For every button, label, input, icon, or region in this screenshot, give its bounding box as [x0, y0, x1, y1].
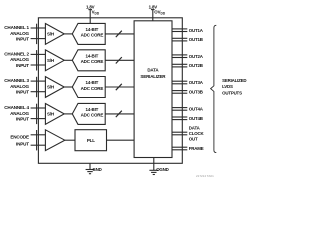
- channel 3 input tick: [36, 77, 38, 97]
- svg-text:ADC CORE: ADC CORE: [81, 113, 104, 118]
- svg-text:PLL: PLL: [87, 138, 95, 143]
- svg-text:14-BIT: 14-BIT: [86, 27, 99, 32]
- svg-text:INPUT: INPUT: [16, 63, 29, 68]
- adc core 2 14-bit: [72, 50, 105, 71]
- ground GND: [86, 163, 102, 173]
- svg-text:SERIALIZER: SERIALIZER: [140, 74, 166, 79]
- svg-text:S/H: S/H: [47, 112, 54, 117]
- svg-text:ADC CORE: ADC CORE: [81, 59, 104, 64]
- bus wire adc 3 to serializer: [105, 84, 134, 90]
- svg-text:INPUT: INPUT: [16, 90, 29, 95]
- svg-text:OUT1A: OUT1A: [189, 28, 204, 33]
- svg-text:OUT3B: OUT3B: [189, 90, 203, 95]
- encode buffer amp: [45, 130, 64, 151]
- lvds output pair OUT2B wires: [172, 64, 187, 67]
- channel 1 input label: [4, 25, 29, 42]
- wire s/h 3 to adc core 3: [64, 86, 72, 88]
- encode input label: [10, 135, 29, 147]
- adc core 3 14-bit: [72, 77, 105, 98]
- svg-text:LVDS: LVDS: [222, 84, 233, 89]
- power net OVDD 1.8V: [149, 5, 166, 21]
- svg-text:INPUT: INPUT: [16, 117, 29, 122]
- bus wire adc 2 to serializer: [105, 57, 134, 63]
- lvds output pair OUT1A wires: [172, 29, 187, 32]
- svg-text:CHANNEL 4: CHANNEL 4: [4, 105, 29, 110]
- svg-text:OUT2A: OUT2A: [189, 54, 204, 59]
- svg-text:S/H: S/H: [47, 58, 54, 63]
- lvds output pair OUT1B wires: [172, 38, 187, 41]
- s/h amp channel 1: [45, 24, 64, 45]
- s/h amp channel 3: [45, 77, 64, 98]
- s/h amp channel 2: [45, 50, 64, 71]
- channel 2 input label: [4, 51, 29, 68]
- svg-text:OUT1B: OUT1B: [189, 37, 203, 42]
- svg-text:S/H: S/H: [47, 32, 54, 37]
- svg-text:14-BIT: 14-BIT: [86, 80, 99, 85]
- s/h amp channel 4: [45, 104, 64, 125]
- svg-text:ANALOG: ANALOG: [10, 84, 29, 89]
- brace grouping lvds outputs: [211, 25, 217, 152]
- svg-text:14-BIT: 14-BIT: [86, 53, 99, 58]
- svg-text:CHANNEL 1: CHANNEL 1: [4, 25, 29, 30]
- wire s/h 4 to adc core 4: [64, 113, 72, 115]
- wire s/h 2 to adc core 2: [64, 59, 72, 61]
- svg-text:DATA: DATA: [147, 68, 159, 73]
- chip outline box: [38, 18, 182, 164]
- svg-text:217214 TA01: 217214 TA01: [196, 174, 214, 178]
- channel 4 input wires: [31, 108, 46, 119]
- lvds output pair OUT4A wires: [172, 108, 187, 111]
- wire s/h 1 to adc core 1: [64, 33, 72, 35]
- svg-text:ANALOG: ANALOG: [10, 31, 29, 36]
- svg-text:ENCODE: ENCODE: [10, 135, 29, 140]
- svg-text:DATA: DATA: [189, 125, 201, 130]
- svg-text:14-BIT: 14-BIT: [86, 107, 99, 112]
- adc core 1 14-bit: [72, 23, 105, 44]
- power net VDD 1.8V: [86, 5, 100, 24]
- channel 1 input tick: [36, 24, 38, 44]
- wire encode amp to pll: [65, 139, 75, 141]
- encode input wires: [31, 135, 46, 145]
- svg-text:OUT3A: OUT3A: [189, 80, 204, 85]
- encode input tick: [36, 130, 38, 150]
- channel 4 input tick: [36, 104, 38, 124]
- svg-text:CHANNEL 2: CHANNEL 2: [4, 51, 29, 56]
- lvds output pair OUT4B wires: [172, 117, 187, 120]
- channel 1 input wires: [31, 28, 46, 39]
- svg-text:FRAME: FRAME: [189, 146, 204, 151]
- svg-text:OUT: OUT: [189, 136, 198, 141]
- svg-text:OUT2B: OUT2B: [189, 63, 203, 68]
- ground OGND: [149, 158, 168, 175]
- wire pll to serializer: [107, 139, 135, 141]
- bus wire adc 4 to serializer: [105, 111, 134, 117]
- svg-text:INPUT: INPUT: [16, 37, 29, 42]
- pll block: [75, 130, 107, 151]
- svg-text:CHANNEL 3: CHANNEL 3: [4, 78, 29, 83]
- lvds output pair OUT3A wires: [172, 81, 187, 84]
- svg-text:CLOCK: CLOCK: [189, 131, 205, 136]
- svg-text:ADC CORE: ADC CORE: [81, 33, 104, 38]
- channel 2 input wires: [31, 54, 46, 65]
- svg-text:OGND: OGND: [156, 167, 168, 172]
- lvds output pair DCO wires: [172, 132, 187, 135]
- adc core 4 14-bit: [72, 103, 105, 124]
- svg-text:OUT4A: OUT4A: [189, 107, 204, 112]
- svg-text:OUTPUTS: OUTPUTS: [222, 91, 242, 96]
- channel 4 input label: [4, 105, 29, 122]
- output label DATA CLOCK OUT: [189, 125, 205, 141]
- svg-text:ANALOG: ANALOG: [10, 57, 29, 62]
- svg-text:ADC CORE: ADC CORE: [81, 86, 104, 91]
- svg-text:INPUT: INPUT: [16, 141, 29, 146]
- svg-text:ANALOG: ANALOG: [10, 111, 29, 116]
- channel 2 input tick: [36, 50, 38, 70]
- channel 3 input wires: [31, 81, 46, 92]
- net label serialized lvds outputs: [222, 78, 246, 96]
- lvds output pair FRAME wires: [172, 147, 187, 150]
- svg-text:GND: GND: [92, 167, 101, 172]
- lvds output pair OUT2A wires: [172, 55, 187, 58]
- svg-text:OUT4B: OUT4B: [189, 116, 203, 121]
- lvds output pair OUT3B wires: [172, 91, 187, 94]
- svg-text:S/H: S/H: [47, 85, 54, 90]
- data serializer block: [134, 21, 172, 158]
- bus wire adc 1 to serializer: [105, 31, 134, 37]
- svg-text:SERIALIZED: SERIALIZED: [222, 78, 246, 83]
- channel 3 input label: [4, 78, 29, 95]
